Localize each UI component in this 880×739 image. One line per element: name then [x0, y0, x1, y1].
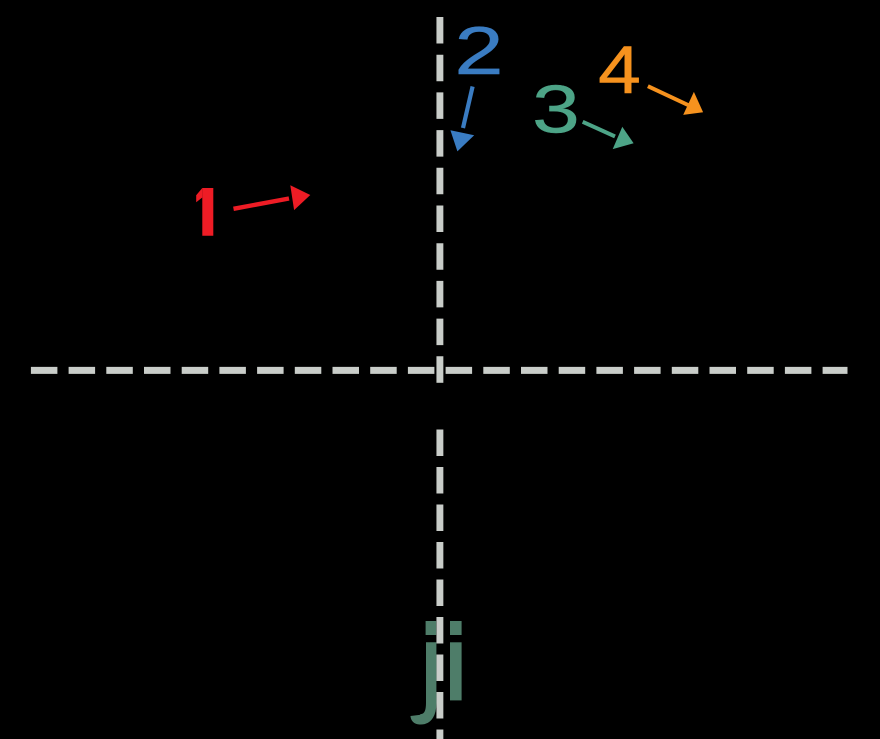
orange arrowhead: [683, 92, 703, 115]
wire green arrow shaft: [583, 122, 615, 137]
letter j dot: [426, 621, 437, 635]
green arrowhead: [613, 127, 634, 149]
svg-text:2: 2: [454, 13, 503, 89]
node label 3: [532, 72, 580, 148]
letter i stem: [450, 642, 462, 700]
letter i dot: [450, 621, 462, 635]
red arrowhead: [290, 185, 310, 210]
letter j stem and hook: [416, 642, 432, 719]
node label 4: [598, 32, 641, 108]
svg-text:4: 4: [598, 32, 641, 108]
wire red arrow shaft: [234, 199, 290, 209]
wire blue arrow shaft: [463, 87, 473, 129]
blue arrowhead: [450, 130, 474, 151]
svg-text:3: 3: [532, 72, 580, 148]
wire horizontal dashed axis: [31, 367, 848, 374]
wire vertical dashed axis lower: [436, 430, 443, 739]
node label 1: [202, 188, 213, 236]
node label 2: [454, 13, 503, 89]
wire orange arrow shaft: [648, 86, 688, 105]
wire vertical dashed axis upper: [436, 17, 443, 385]
